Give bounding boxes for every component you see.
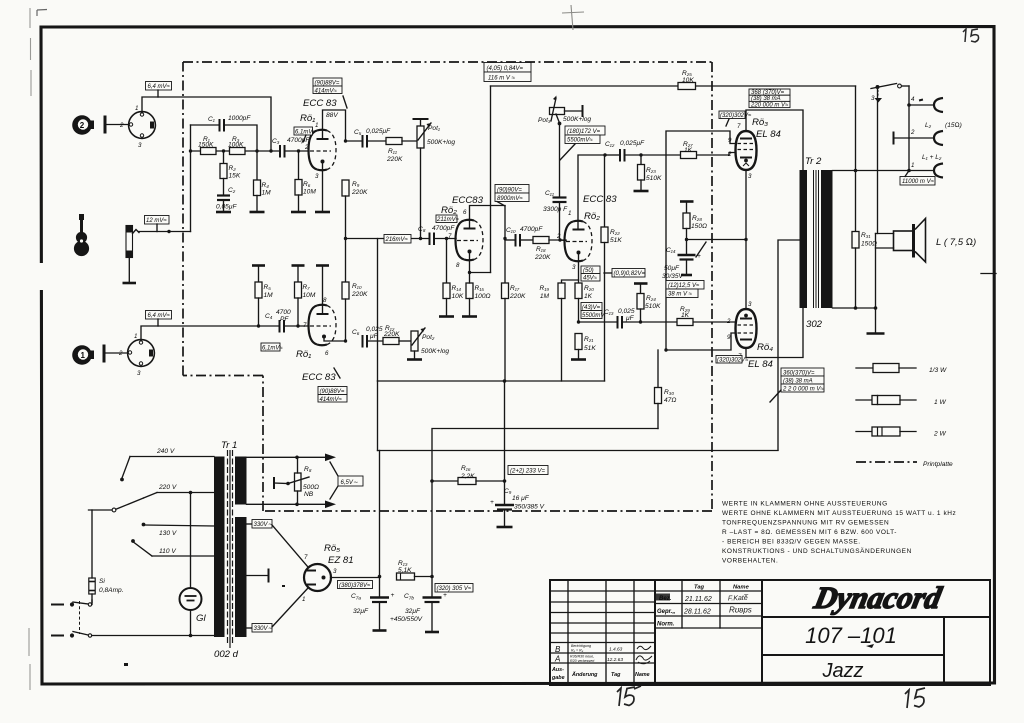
svg-text:R₁₀: R₁₀ [352,283,362,290]
humdinger pot R8 500R [274,457,319,504]
ground bar below C7b [425,631,439,634]
svg-text:30/35V: 30/35V [662,273,684,280]
capacitor C7a 32uF [351,577,395,630]
svg-text:L₂: L₂ [925,122,932,129]
svg-text:7: 7 [448,233,452,240]
resistor R30 47R [655,350,677,429]
svg-text:38 m V ≈: 38 m V ≈ [668,292,693,298]
svg-text:C₆: C₆ [352,329,360,336]
svg-text:8: 8 [323,297,327,304]
svg-text:15K: 15K [229,173,241,180]
wire Ro2a anode to C10 node [470,206,507,241]
measurement box (12)12,5V 38mV [666,281,704,298]
heater winding wire upper with arrow [247,454,337,462]
wire Tr2 secondary top to output [833,169,911,173]
svg-text:Name: Name [733,585,750,591]
svg-text:C7a: C7a [351,593,361,602]
svg-text:1: 1 [135,105,138,112]
svg-text:Rö₁: Rö₁ [296,349,311,360]
wire jack2 pin1 to grid rail [142,97,271,151]
fuse Si 0,8Amp [89,510,124,603]
svg-text:500K+log: 500K+log [563,116,591,123]
svg-text:(90)90V=: (90)90V= [497,188,522,194]
svg-text:Tr 2: Tr 2 [805,156,822,167]
svg-text:R₁₅: R₁₅ [475,285,485,292]
tube label Ro3 EL84 [752,117,781,140]
wire guitar riser to rail junction [189,125,192,232]
svg-text:R₁₃: R₁₃ [398,560,408,567]
wire tap riser to switch [855,86,857,232]
mains switch pole 1 [52,600,92,607]
svg-text:R₂₅: R₂₅ [682,70,692,77]
svg-text:(320)302V≈: (320)302V≈ [720,113,752,119]
measurement box (90)90V 8900mV [495,185,529,207]
ground bar below C7a [373,629,387,632]
revision row B [555,644,651,654]
wire C7a node riser [378,451,382,579]
svg-text:107 –101: 107 –101 [805,623,897,648]
capacitor C2 0,05uF [216,179,237,212]
svg-text:R₄: R₄ [262,182,270,189]
svg-text:(15Ω): (15Ω) [945,122,962,129]
svg-text:216mV≈: 216mV≈ [385,237,409,243]
resistor R22 51K [601,155,622,381]
svg-text:NB: NB [304,491,314,498]
svg-text:500K+log: 500K+log [421,348,449,355]
transformer Tr1 [214,440,247,660]
handwritten 15 bottom center [617,686,641,706]
wire anode Ro2b riser to coupling line [578,153,619,229]
svg-text:1: 1 [81,351,86,360]
svg-text:5,1K: 5,1K [398,567,412,574]
svg-text:+450/550V: +450/550V [390,616,423,623]
heater voltage box 6,5V [330,462,363,499]
svg-text:Tag: Tag [694,585,705,591]
potentiometer Pot2 500K+log [411,328,449,359]
svg-text:R₇: R₇ [303,284,311,291]
svg-text:7: 7 [737,123,741,130]
svg-text:C₁₄: C₁₄ [666,247,676,254]
feedback wire vertical to top line [490,86,492,273]
svg-text:50μF: 50μF [664,265,680,272]
triode Ro1a envelope [304,122,336,180]
svg-text:360(370)V=: 360(370)V= [783,371,815,377]
tube label ECC83 Ro1 upper [300,96,347,124]
resistor R3 100K [228,136,245,155]
resistor R6 10M [295,149,316,211]
svg-text:C₁₂: C₁₂ [605,141,615,148]
capacitor C14 50uF electrolytic [662,240,706,281]
wire Ro3 screen grid to supply [666,131,736,350]
svg-text:4700: 4700 [276,309,291,316]
measurement box 216mV [384,235,411,244]
ground below R21 [571,358,586,361]
svg-text:gabe: gabe [551,675,565,681]
resistor R31 150R [852,232,877,309]
svg-text:Tag: Tag [611,672,621,678]
svg-text:3: 3 [572,264,576,271]
measurement box 360(370)V 38mA Ro4 [770,368,824,402]
resistor R2 15K [220,151,241,180]
capacitor C10 4700pF [505,226,543,247]
resistor R28 150R [680,202,707,242]
revision row A [554,655,652,664]
title block row Bez 21.11.62 [656,594,749,604]
svg-text:88V: 88V [326,112,338,119]
ground below R14 [439,315,454,318]
measurement box 330V lower [247,588,309,632]
svg-text:1K: 1K [684,147,693,154]
tube label ECC 83 Ro2b [583,194,617,222]
measurement box (2+2)233V [508,466,548,475]
wire Ro4 screen grid [664,333,735,352]
legend Printplatte dash-dot [856,461,953,468]
resistor R13 5,1K [397,560,433,580]
svg-text:1M: 1M [262,190,272,197]
measurement box 330V upper [247,520,309,568]
measurement box 6,4mV input1 [146,311,172,327]
measurement box 6,1mV upper [294,127,316,142]
svg-text:1M: 1M [540,293,550,300]
measurement box (43)V 5500mV [581,303,605,320]
B+ feed wire to output stage [378,381,779,451]
svg-text:μF: μF [625,315,635,322]
svg-text:+: + [391,592,395,599]
selector switch arm [89,498,144,512]
resistor R12 220K [383,325,411,345]
svg-text:6,5V∼: 6,5V∼ [341,480,358,486]
svg-text:+: + [490,499,494,506]
measurement box (380)378V [338,581,373,590]
svg-text:WERTE IN KLAMMERN OHNE AUS: WERTE IN KLAMMERN OHNE AUSSTEUERUNG [722,501,888,508]
anode stub Ro1b to supply bar [316,266,329,315]
svg-text:220 000 m V≈: 220 000 m V≈ [750,102,789,108]
svg-text:11000 m V≈: 11000 m V≈ [902,179,935,185]
svg-text:100K: 100K [228,142,244,149]
svg-text:C₁: C₁ [208,116,215,123]
svg-text:51K: 51K [584,345,596,352]
svg-text:47Ω: 47Ω [664,397,676,404]
B+ rail horizontal [378,379,605,383]
svg-text:51K: 51K [610,237,622,244]
svg-text:WERTE OHNE KLAMMERN MIT AU: WERTE OHNE KLAMMERN MIT AUSSTEUERUNG 15 … [722,510,956,517]
ground below rail [867,308,885,334]
svg-text:L₁ + L₂: L₁ + L₂ [922,154,942,161]
capacitor C5 0,025uF [344,128,391,148]
measurement box (180)172V 5500mV [560,126,605,160]
svg-text:0,025: 0,025 [618,308,635,315]
pentode Ro3 EL84 envelope [727,123,757,180]
svg-text:R₂: R₂ [229,165,237,172]
Printplatte dash-dot boundary outline [183,62,712,511]
handwritten sheet number 15 top right [963,29,979,42]
svg-text:R₈: R₈ [304,466,312,473]
svg-text:12 mV≈: 12 mV≈ [146,218,167,224]
svg-text:C7b: C7b [404,593,414,602]
output terminal 2 with open bar [894,129,944,145]
svg-text:Rö₁: Rö₁ [300,113,315,124]
svg-text:32μF: 32μF [353,608,369,615]
svg-text:7: 7 [303,322,307,329]
svg-text:Berichtigung: Berichtigung [571,644,591,648]
wire Ro1a cathode to ground [322,162,324,212]
svg-text:C₉: C₉ [504,488,512,495]
svg-text:F.Katē̅: F.Katē̅ [728,594,750,603]
svg-text:(0,9)0,82V=: (0,9)0,82V= [614,271,646,277]
svg-text:1.4.63: 1.4.63 [609,647,623,653]
svg-text:Aus-: Aus- [551,667,564,673]
rectifier EZ81 Ro5 [302,554,337,603]
legend resistor 1 W [856,396,946,407]
wire Ro3 cathode down [744,170,747,241]
svg-text:L ( 7,5 Ω): L ( 7,5 Ω) [936,237,976,248]
svg-text:510K: 510K [645,303,661,310]
svg-text:1: 1 [134,333,137,340]
svg-text:368 (370)V=: 368 (370)V= [751,90,785,96]
type number 107-101 [805,623,897,648]
svg-text:16 μF: 16 μF [512,495,530,502]
svg-text:7: 7 [304,554,308,561]
svg-text:2: 2 [556,233,561,240]
svg-text:Pot₁: Pot₁ [428,125,440,132]
svg-text:6: 6 [463,209,467,216]
svg-text:32μF: 32μF [405,608,421,615]
resistor R27 1K [681,141,736,159]
handwritten 15 bottom right [905,688,925,708]
svg-text:2: 2 [119,122,124,129]
svg-text:1K: 1K [681,312,690,319]
svg-text:3: 3 [138,142,142,149]
resistor R19 1M [540,283,565,381]
svg-text:ECC 83: ECC 83 [303,98,337,109]
title block header texts Tag Name [694,585,750,591]
svg-text:150Ω: 150Ω [861,241,877,248]
svg-text:R₅: R₅ [264,284,272,291]
svg-text:100Ω: 100Ω [475,293,491,300]
svg-text:21.11.62: 21.11.62 [684,596,712,603]
svg-text:(43)V=: (43)V= [582,305,601,311]
svg-text:TONFREQUENZSPANNUNG MIT RV: TONFREQUENZSPANNUNG MIT RV GEMESSEN [722,520,889,527]
svg-text:2: 2 [910,129,915,136]
plug symbol at jack 2 [104,116,129,134]
speaker symbol [876,219,977,309]
svg-text:R20 verbessert: R20 verbessert [570,659,595,663]
svg-text:Rö₄: Rö₄ [757,342,773,353]
resistor R5 1M [252,266,273,327]
revision table footer labels [551,667,650,681]
svg-text:VORBEHALTEN.: VORBEHALTEN. [722,558,778,565]
svg-text:220K: 220K [509,293,526,300]
svg-text:Bez.: Bez. [659,596,672,602]
svg-text:R₂₂: R₂₂ [610,229,620,236]
capacitor C11 3300pF [543,124,568,241]
wire EZ81 cathode to C7a node [331,577,380,579]
measurement box (320)302V Ro3 [719,111,752,126]
capacitor C1 1000pF [191,115,258,151]
svg-text:12.2.63: 12.2.63 [607,657,623,663]
svg-text:302: 302 [806,319,823,330]
guitar plug symbol [123,226,137,284]
svg-text:4: 4 [911,96,915,103]
resistor R17 220K [502,239,527,382]
svg-text:3: 3 [333,568,337,575]
svg-text:R₂₀: R₂₀ [584,285,594,292]
ground below Pot2 [407,358,422,361]
svg-text:(12)12,5 V≈: (12)12,5 V≈ [668,283,700,289]
wire C7b node riser [430,481,434,578]
mains tap 110V [131,539,214,556]
svg-text:(50): (50) [583,268,594,274]
wire R9/R10 node to grid line Ro2a [346,237,457,381]
svg-text:2 2 0 000 m V≈: 2 2 0 000 m V≈ [782,387,824,393]
svg-text:1K: 1K [584,293,593,300]
wire to terminal 4 [907,86,934,171]
bottom mains rail [92,634,214,638]
svg-text:(180)172 V=: (180)172 V= [567,129,601,135]
svg-text:Pot₂: Pot₂ [422,334,435,341]
measurement box 6,1mV lower [261,343,283,352]
wire NFB line y86 [491,85,856,87]
svg-text:0,8Amp.: 0,8Amp. [99,587,124,594]
svg-text:220K: 220K [383,331,400,338]
svg-text:R₁₉: R₁₉ [540,285,550,292]
triode Ro2a envelope [448,209,483,269]
svg-text:2 W: 2 W [933,431,946,438]
svg-text:0,05μF: 0,05μF [216,204,237,211]
svg-text:R₁₇: R₁₇ [510,285,520,292]
svg-text:2: 2 [304,144,309,151]
resistor R23 510K [638,155,663,190]
capacitor C4 4700pF [265,309,291,333]
svg-text:(4,05) 0,84V=: (4,05) 0,84V= [487,66,524,72]
resistor R11 220K [386,138,417,164]
Dynacord script logo [810,580,945,615]
svg-text:+: + [443,592,447,599]
svg-text:Gl: Gl [196,613,206,624]
svg-text:Änderung: Änderung [571,671,598,678]
svg-text:(2+2) 233 V=: (2+2) 233 V= [510,469,546,475]
output terminal 4 [911,96,943,112]
wire cathode bus Ro3/Ro4 [687,239,747,241]
svg-text:5500mV≈: 5500mV≈ [567,138,593,144]
resistor R1 150K [198,136,216,155]
resistor R25 10K [678,70,696,90]
triode Ro1b envelope [303,297,336,357]
svg-text:2,2K: 2,2K [460,473,475,480]
transformer Tr2 [800,156,833,330]
svg-text:45V≈: 45V≈ [583,276,598,282]
resistor R15 100R [466,273,491,316]
svg-text:4700pF: 4700pF [432,225,455,232]
svg-text:1M: 1M [264,292,274,299]
switch link dashed [79,601,81,634]
ground below R15 [462,315,477,318]
svg-text:8900mV≈: 8900mV≈ [497,196,523,202]
svg-text:414mV≈: 414mV≈ [320,397,343,403]
svg-text:R₁₁: R₁₁ [388,148,397,155]
svg-text:C₁₁: C₁₁ [545,190,554,197]
svg-text:ECC 83: ECC 83 [583,194,617,205]
legend resistor 2 W [856,427,946,438]
svg-text:(320)302V≈: (320)302V≈ [717,358,749,364]
svg-text:4700pF: 4700pF [520,226,543,233]
measurement box (320)305V [435,584,473,593]
svg-text:220K: 220K [351,291,368,298]
resistor R20 1K [575,283,594,324]
svg-text:1: 1 [568,210,571,217]
scan artifact pencil mark top-center [562,5,584,30]
capacitor C12 0,025uF [605,140,680,162]
svg-text:1: 1 [302,596,305,603]
resistor R10 220K [342,237,368,341]
svg-text:(38) 38 mA: (38) 38 mA [783,379,813,385]
svg-text:130 V: 130 V [159,530,177,537]
svg-text:R₁₄: R₁₄ [452,285,462,292]
wire Ro4 anode to Tr2 bottom [746,308,803,358]
wire Ro2a cathode to NFB node [468,252,491,275]
svg-text:B: B [555,645,561,654]
svg-text:116 m V ≈: 116 m V ≈ [488,76,516,82]
jack socket 2 [119,105,155,149]
resistor R21 51K [575,334,596,359]
svg-text:R₂₄: R₂₄ [646,295,656,302]
measurement box 368(370)V 38mA Ro3 [749,89,790,108]
microphone icon input 1 [72,345,94,365]
svg-text:(380)378V≈: (380)378V≈ [339,583,371,589]
svg-text:500K+log: 500K+log [427,139,455,146]
svg-text:Gepr.„: Gepr.„ [657,609,675,615]
svg-text:110 V: 110 V [159,548,176,555]
grid rail channel 2 [191,149,310,152]
svg-text:6,1mV≈: 6,1mV≈ [262,346,283,352]
svg-text:Dynacord: Dynacord [810,580,945,615]
mains tap 130V [142,523,214,537]
svg-text:330V∼: 330V∼ [254,522,273,528]
wire Ro4 cathode up to bus [745,240,747,310]
svg-text:ECC 83: ECC 83 [302,372,336,383]
measurement box 211mV [436,215,460,223]
svg-text:R₃₀: R₃₀ [664,389,674,396]
svg-text:R₃₁: R₃₁ [861,232,870,239]
resistor R7 10M [292,266,316,327]
ground below C2 [216,211,231,214]
svg-text:R₁₆: R₁₆ [461,465,471,472]
ground below R6 [291,211,306,214]
svg-text:0,025μF: 0,025μF [366,128,391,135]
German notes text block [722,501,956,565]
svg-text:220K: 220K [386,156,403,163]
svg-text:4700pF: 4700pF [287,137,310,144]
measurement box 12mV guitar [145,216,170,232]
wire grid Ro2b from R18 [560,239,566,242]
measurement box 11000mV [900,172,935,185]
resistor R18 220K [533,237,566,262]
title block row Norm [657,622,675,628]
tube label Ro4 EL84 [748,342,773,370]
svg-text:Printplatte: Printplatte [923,461,953,468]
wire secondary return rail [833,306,878,310]
plug symbol at jack 1 [103,345,128,363]
svg-text:1: 1 [315,122,318,129]
triode Ro2b envelope [556,210,592,271]
feedback line top with measurement box [484,63,531,82]
svg-text:6,4 mV≈: 6,4 mV≈ [148,313,171,319]
svg-text:C₅: C₅ [354,129,362,136]
svg-text:414mV≈: 414mV≈ [315,89,338,95]
capacitor C3 4700pF [272,137,310,158]
svg-text:10M: 10M [303,292,316,299]
speck artifacts [124,99,923,666]
